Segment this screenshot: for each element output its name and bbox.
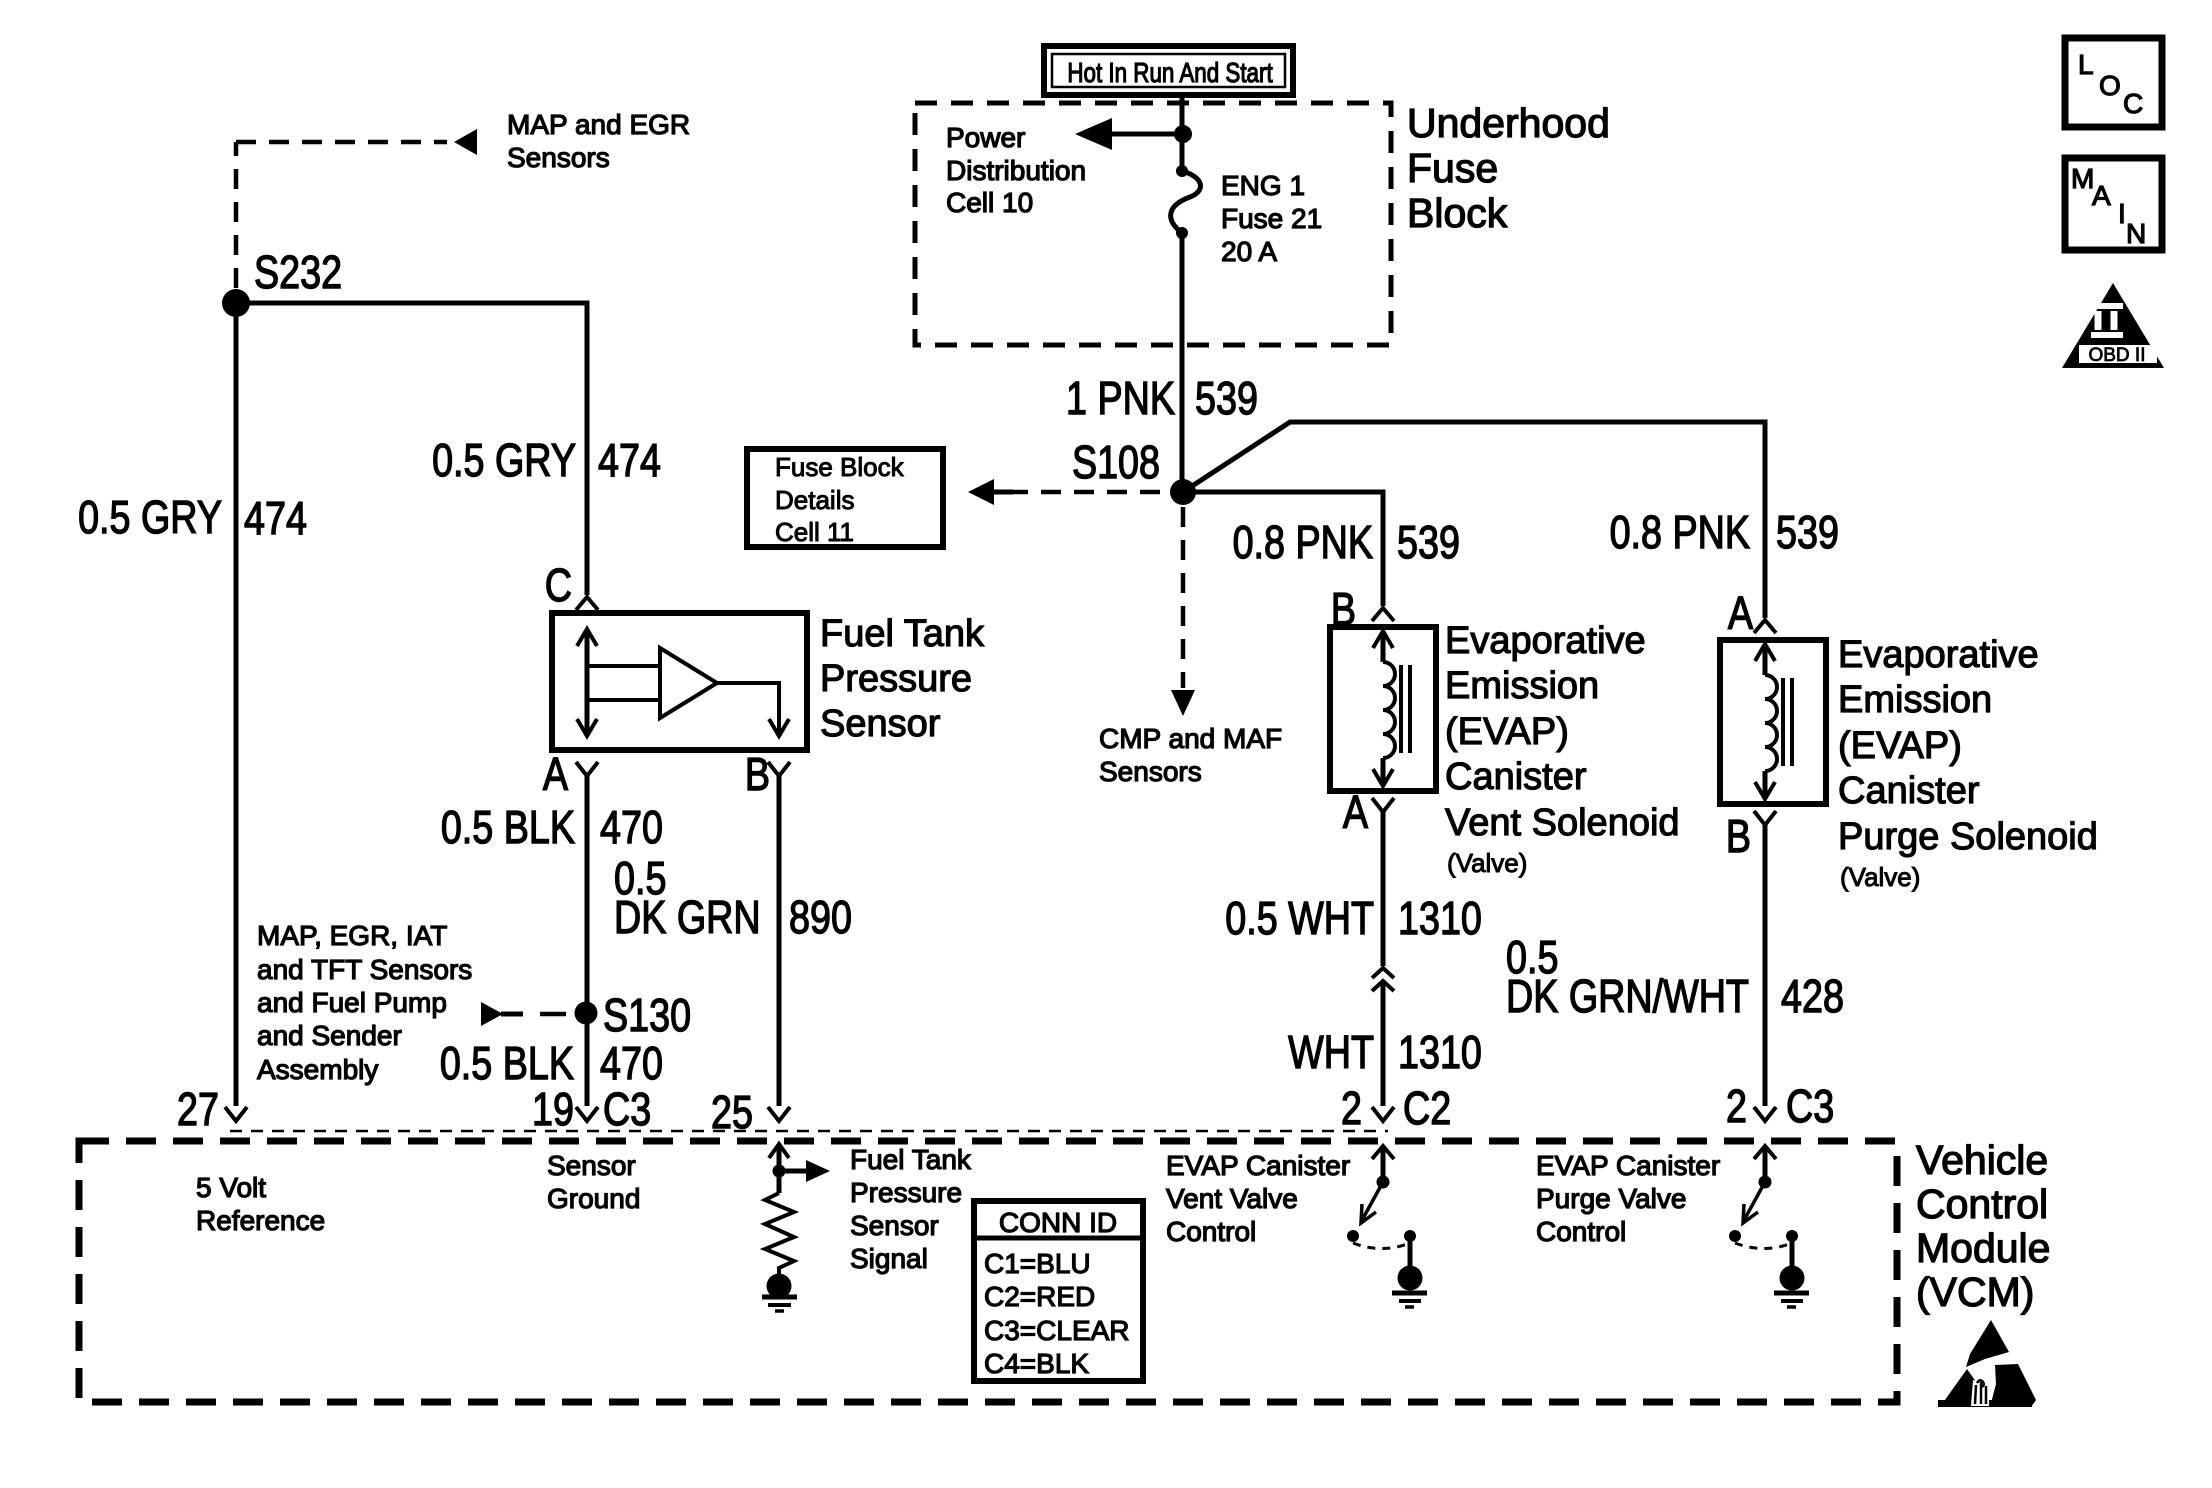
pin A connector: [1754, 620, 1776, 633]
svg-text:0.5 BLK: 0.5 BLK: [440, 1037, 574, 1088]
CONN ID table: [974, 1201, 1143, 1381]
svg-text:Ground: Ground: [547, 1183, 640, 1214]
svg-text:474: 474: [244, 492, 307, 543]
svg-text:N: N: [2126, 218, 2146, 249]
svg-text:S130: S130: [603, 989, 691, 1040]
LOC box: [2065, 38, 2162, 127]
svg-text:428: 428: [1781, 970, 1844, 1021]
label Vehicle Control Module (VCM): [1916, 1137, 2050, 1315]
label 0.5 GRY 474 (upper): [432, 434, 661, 485]
label CMP and MAF Sensors: [1099, 723, 1282, 787]
svg-text:C3=CLEAR: C3=CLEAR: [984, 1315, 1130, 1346]
svg-text:DK GRN: DK GRN: [614, 891, 761, 942]
label 5 Volt Reference: [196, 1172, 325, 1236]
dashed wire S108 down to CMP and MAF sensors: [1181, 507, 1186, 688]
EVAP vent solenoid: [1330, 583, 1436, 837]
svg-text:0.5 BLK: 0.5 BLK: [441, 801, 575, 852]
svg-text:C2: C2: [1403, 1082, 1451, 1133]
node S232: [222, 289, 250, 317]
svg-text:(EVAP): (EVAP): [1838, 725, 1962, 767]
label 19 C3: [532, 1083, 651, 1134]
svg-text:Distribution: Distribution: [946, 155, 1086, 186]
svg-text:CONN ID: CONN ID: [999, 1207, 1117, 1238]
svg-text:C2=RED: C2=RED: [984, 1281, 1095, 1312]
wire S232 down to VCM pin 27: [234, 303, 239, 1106]
wire vent solenoid A down: [1381, 812, 1386, 966]
wire FTPS B down to VCM pin 25: [777, 776, 782, 1106]
svg-text:0.5 WHT: 0.5 WHT: [1225, 892, 1374, 943]
svg-text:Vent Solenoid: Vent Solenoid: [1445, 802, 1680, 844]
VCM pin 19 connector: [576, 1107, 598, 1121]
svg-text:Control: Control: [1536, 1216, 1626, 1247]
svg-text:WHT: WHT: [1288, 1026, 1374, 1077]
Underhood Fuse Block dashed box: [915, 103, 1391, 345]
FTPS internal arrows: [577, 629, 660, 736]
label Evaporative Emission (EVAP) Canister Purge Solenoid (Valve): [1838, 634, 2098, 892]
svg-text:470: 470: [600, 801, 663, 852]
VCM connector thin dashed line: [230, 1130, 1388, 1133]
svg-text:1310: 1310: [1398, 1026, 1482, 1077]
svg-text:Control: Control: [1916, 1181, 2048, 1227]
svg-text:20 A: 20 A: [1221, 236, 1277, 267]
svg-text:Signal: Signal: [850, 1243, 928, 1274]
svg-text:Evaporative: Evaporative: [1445, 620, 1646, 662]
label Power Distribution Cell 10: [946, 122, 1086, 218]
arrow to MAP and EGR Sensors: [454, 129, 477, 155]
label ENG 1 Fuse 21 20 A: [1221, 170, 1322, 267]
svg-text:2: 2: [1726, 1080, 1747, 1131]
label 2 C3: [1726, 1080, 1834, 1131]
svg-text:Pressure: Pressure: [850, 1177, 962, 1208]
power rail box "Hot In Run And Start": [1044, 46, 1293, 95]
svg-text:S232: S232: [254, 246, 342, 297]
svg-text:C4=BLK: C4=BLK: [984, 1348, 1089, 1379]
label Sensor Ground: [547, 1150, 640, 1214]
wire S108 to vent solenoid: [1183, 492, 1383, 606]
label 0.5 BLK 470 (upper): [441, 801, 663, 852]
wire arrow to Power Distribution: [1110, 132, 1182, 137]
svg-text:B: B: [745, 748, 770, 799]
wire S232 to fuel tank pressure sensor pin C: [236, 303, 587, 595]
svg-text:C1=BLU: C1=BLU: [984, 1248, 1091, 1279]
label Fuel Tank Pressure Sensor: [820, 613, 985, 745]
label 0.5 BLK 470 (lower): [440, 1037, 663, 1088]
svg-text:MAP, EGR, IAT: MAP, EGR, IAT: [257, 920, 447, 951]
MAIN box: [2065, 158, 2162, 250]
label Fuel Tank Pressure Sensor Signal: [850, 1144, 972, 1274]
svg-text:Sensors: Sensors: [1099, 756, 1202, 787]
vent valve driver switch: [1347, 1146, 1427, 1307]
wire fuse to S108: [1180, 233, 1185, 492]
FTPS signal input arrow: [769, 1144, 789, 1193]
svg-text:I: I: [2118, 198, 2126, 229]
svg-text:Sensors: Sensors: [507, 142, 610, 173]
resistor R (pull-up): [765, 1193, 794, 1274]
svg-text:Sensor: Sensor: [547, 1150, 636, 1181]
svg-text:(Valve): (Valve): [1447, 848, 1527, 878]
svg-text:5 Volt: 5 Volt: [196, 1172, 266, 1203]
svg-text:C3: C3: [603, 1083, 651, 1134]
svg-text:C3: C3: [1786, 1080, 1834, 1131]
svg-text:Fuse 21: Fuse 21: [1221, 203, 1322, 234]
svg-text:EVAP Canister: EVAP Canister: [1166, 1150, 1350, 1181]
label MAP and EGR Sensors: [507, 109, 690, 173]
wire inline connector to pin C2: [1381, 981, 1386, 1106]
svg-text:Reference: Reference: [196, 1205, 325, 1236]
svg-text:DK GRN/WHT: DK GRN/WHT: [1506, 970, 1749, 1021]
label EVAP Canister Vent Valve Control: [1166, 1150, 1350, 1247]
label MAP, EGR, IAT and TFT Sensors and Fuel Pump and Sender Assembly: [257, 920, 472, 1085]
svg-text:Fuel Tank: Fuel Tank: [850, 1144, 972, 1175]
arrow and dashed wire to S130: [481, 1002, 568, 1026]
svg-text:2: 2: [1341, 1082, 1362, 1133]
VCM pin C2 connector: [1372, 1107, 1394, 1121]
svg-text:Emission: Emission: [1838, 679, 1992, 721]
svg-text:0.8 PNK: 0.8 PNK: [1233, 516, 1373, 567]
label 0.8 PNK 539 (left): [1233, 516, 1460, 567]
label WHT 1310: [1288, 1026, 1482, 1077]
label 0.5 WHT 1310: [1225, 892, 1482, 943]
solenoid coil: [1755, 644, 1792, 799]
node junction to power distribution: [1177, 128, 1190, 141]
svg-text:27: 27: [177, 1083, 219, 1134]
svg-text:Vehicle: Vehicle: [1916, 1137, 2048, 1183]
svg-text:ENG 1: ENG 1: [1221, 170, 1305, 201]
label Evaporative Emission (EVAP) Canister Vent Solenoid (Valve): [1445, 620, 1680, 878]
svg-text:Hot In Run And Start: Hot In Run And Start: [1067, 58, 1272, 89]
inline connector on WHT wire: [1372, 968, 1394, 991]
svg-text:474: 474: [598, 434, 661, 485]
svg-text:Assembly: Assembly: [257, 1054, 378, 1085]
VCM pin 27 connector: [225, 1107, 247, 1121]
node at signal branch: [773, 1165, 786, 1178]
svg-text:Emission: Emission: [1445, 665, 1599, 707]
svg-text:470: 470: [600, 1037, 663, 1088]
svg-text:OBD II: OBD II: [2088, 345, 2145, 366]
svg-text:M: M: [2071, 163, 2094, 194]
wire S108 diagonal to purge solenoid: [1183, 422, 1765, 618]
VCM pin C3 connector: [1754, 1107, 1776, 1121]
svg-text:25: 25: [711, 1086, 753, 1137]
svg-text:Canister: Canister: [1445, 756, 1587, 798]
node S130: [575, 1002, 598, 1025]
svg-text:and Sender: and Sender: [257, 1020, 402, 1051]
svg-text:and Fuel Pump: and Fuel Pump: [257, 987, 447, 1018]
svg-text:A: A: [543, 748, 568, 799]
svg-text:L: L: [2078, 49, 2094, 80]
arrow to CMP and MAF sensors: [1171, 690, 1195, 716]
wire purge solenoid B down to pin C3: [1763, 825, 1768, 1106]
svg-text:Underhood: Underhood: [1407, 100, 1610, 146]
dashed wire from S232 up to MAP and EGR sensors: [236, 142, 447, 288]
svg-text:Sensor: Sensor: [850, 1210, 939, 1241]
pin A connector: [576, 762, 598, 776]
svg-text:0.5 GRY: 0.5 GRY: [432, 434, 576, 485]
wire from Hot box to fuse: [1180, 95, 1185, 171]
svg-text:539: 539: [1397, 516, 1460, 567]
fuse ENG 1 Fuse 21 20A: [1171, 165, 1201, 239]
svg-text:O: O: [2099, 70, 2121, 101]
svg-text:A: A: [1728, 587, 1753, 638]
svg-text:S108: S108: [1072, 436, 1160, 487]
svg-text:Canister: Canister: [1838, 770, 1980, 812]
node S108: [1170, 479, 1196, 505]
svg-text:1 PNK: 1 PNK: [1066, 372, 1175, 423]
svg-text:B: B: [1726, 810, 1751, 861]
label 0.5 GRY 474 (left): [78, 491, 307, 543]
svg-text:C: C: [545, 559, 572, 610]
pin C connector: [576, 597, 598, 610]
solenoid box: [1330, 627, 1436, 791]
svg-text:and TFT Sensors: and TFT Sensors: [257, 954, 472, 985]
ESD warning symbol: [1938, 1320, 2036, 1407]
arrow to Fuel Tank Pressure Sensor Signal: [779, 1160, 830, 1182]
fuse block details box: [747, 449, 943, 547]
arrow to fuse block details: [968, 479, 1013, 505]
svg-text:539: 539: [1195, 372, 1258, 423]
svg-text:539: 539: [1776, 506, 1839, 557]
svg-text:(VCM): (VCM): [1916, 1269, 2034, 1315]
svg-text:Vent Valve: Vent Valve: [1166, 1183, 1298, 1214]
pin B connector: [1754, 811, 1776, 825]
svg-text:Pressure: Pressure: [820, 658, 972, 700]
purge valve driver switch: [1729, 1146, 1809, 1307]
solenoid box: [1720, 640, 1826, 804]
svg-text:Purge Solenoid: Purge Solenoid: [1838, 816, 2098, 858]
pin B connector: [1372, 608, 1394, 621]
ground symbol: [762, 1297, 797, 1311]
svg-text:19: 19: [532, 1083, 574, 1134]
FTPS output wire: [717, 683, 789, 736]
svg-text:MAP and EGR: MAP and EGR: [507, 109, 690, 140]
label 0.5 DK GRN/WHT 428: [1506, 931, 1844, 1021]
svg-text:Power: Power: [946, 122, 1025, 153]
label 0.8 PNK 539 (right): [1610, 506, 1839, 557]
svg-text:Cell 11: Cell 11: [775, 517, 854, 547]
svg-text:(Valve): (Valve): [1840, 862, 1920, 892]
svg-text:Control: Control: [1166, 1216, 1256, 1247]
solenoid coil: [1373, 631, 1410, 786]
svg-text:Evaporative: Evaporative: [1838, 634, 2039, 676]
svg-text:C: C: [2123, 88, 2143, 119]
svg-text:0.5 GRY: 0.5 GRY: [78, 491, 222, 542]
svg-text:Fuse: Fuse: [1407, 145, 1498, 191]
svg-text:Block: Block: [1407, 190, 1508, 236]
svg-text:Cell 10: Cell 10: [946, 187, 1033, 218]
svg-text:Fuse Block: Fuse Block: [775, 452, 905, 482]
svg-text:Sensor: Sensor: [820, 703, 941, 745]
dashed wire S108 to fuse block details: [1008, 490, 1170, 495]
label 2 C2: [1341, 1082, 1451, 1133]
svg-text:Details: Details: [775, 485, 854, 515]
svg-text:EVAP Canister: EVAP Canister: [1536, 1150, 1720, 1181]
VCM pin 25 connector: [768, 1107, 790, 1121]
label 0.5 DK GRN 890: [614, 852, 852, 942]
label Underhood Fuse Block: [1407, 100, 1610, 236]
label C1=BLU C2=RED C3=CLEAR C4=BLK: [984, 1248, 1130, 1379]
svg-text:Purge Valve: Purge Valve: [1536, 1183, 1686, 1214]
VCM dashed box: [79, 1141, 1897, 1402]
fuel tank pressure sensor box: [552, 613, 807, 750]
FTPS amplifier triangle: [660, 648, 717, 718]
wire FTPS A down to VCM pin 19: [585, 776, 590, 1106]
svg-text:A: A: [2092, 180, 2111, 211]
svg-text:Fuel Tank: Fuel Tank: [820, 613, 985, 655]
label EVAP Canister Purge Valve Control: [1536, 1150, 1720, 1247]
svg-text:890: 890: [789, 891, 852, 942]
svg-text:CMP and MAF: CMP and MAF: [1099, 723, 1282, 754]
svg-text:0.8 PNK: 0.8 PNK: [1610, 506, 1750, 557]
OBD II symbol: [2062, 283, 2164, 368]
svg-text:A: A: [1343, 786, 1368, 837]
EVAP purge solenoid: [1720, 587, 1826, 861]
svg-text:Module: Module: [1916, 1225, 2050, 1271]
pin A connector: [1372, 798, 1394, 812]
pin B connector: [768, 762, 790, 776]
label 1 PNK 539: [1066, 372, 1258, 423]
label Fuse Block Details Cell 11: [775, 452, 905, 547]
svg-text:1310: 1310: [1398, 892, 1482, 943]
ground ball: [767, 1274, 792, 1299]
svg-text:(EVAP): (EVAP): [1445, 711, 1569, 753]
